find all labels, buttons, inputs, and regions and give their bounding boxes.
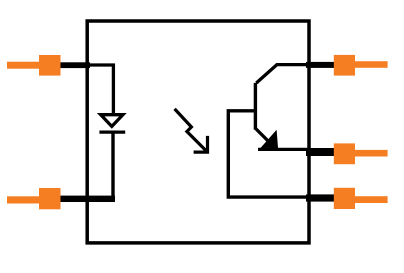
package outline U1 — [87, 21, 309, 243]
wire base (to pin6) — [228, 111, 309, 197]
pin 6 stub — [306, 194, 335, 201]
pin 4 lead — [355, 150, 388, 157]
transistor Q1 emitter diagonal — [256, 129, 269, 142]
pin 2 stub — [59, 196, 115, 202]
emitter arrow notch — [264, 148, 270, 151]
pin 2 pad — [39, 188, 61, 209]
LED D1 cathode bar — [99, 130, 125, 133]
pin 5 pad — [334, 55, 355, 76]
pin 1 lead — [7, 62, 40, 69]
wire cathode (LED to pin2) — [111, 133, 114, 199]
pin 1 stub — [59, 62, 90, 68]
pin 5 lead — [355, 61, 388, 68]
pin 4 stub — [306, 148, 335, 156]
pin 4 pad — [334, 143, 355, 164]
transistor Q1 collector wire — [256, 65, 309, 83]
pin 6 pad — [334, 188, 355, 209]
pin 5 stub — [306, 62, 335, 68]
wire anode (pin1 to LED) — [87, 65, 113, 116]
transistor Q1 base bar — [254, 83, 257, 130]
pin 6 lead — [355, 196, 388, 203]
pin 2 lead — [7, 196, 40, 203]
wire emitter (to pin4) — [258, 148, 309, 151]
transistor Q1 emitter arrow — [259, 130, 279, 150]
light arrow head — [194, 136, 209, 154]
pin 1 pad — [39, 55, 61, 76]
LED D1 triangle — [101, 115, 123, 127]
light arrow (optical coupling) — [175, 109, 208, 152]
